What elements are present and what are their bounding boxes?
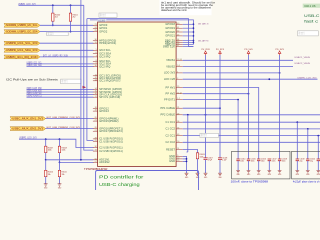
svg-text:2k2: 2k2 [55,17,58,19]
net label USBPD_FLASH_MISO [27,87,42,90]
note box B2 [47,32,68,36]
wire rail PU_1 [205,55,207,158]
junction PP1 rail [219,107,221,109]
svg-text:I2C2 IRQ: I2C2 IRQ [99,65,110,68]
power flag PU_I2C9 [216,49,224,55]
svg-text:GPIO13: GPIO13 [99,110,109,113]
svg-text:100n: 100n [240,161,244,163]
wire VBUS1 [183,59,293,61]
svg-text:U1300: U1300 [98,20,105,22]
wire LDO 1V8 rail [183,78,318,80]
note box B1 [99,13,117,17]
sheet label highlight [303,4,320,8]
svg-text:23: 23 [95,24,97,26]
junction dbg wire [193,23,195,25]
text comment block [161,1,215,12]
svg-text:30: 30 [95,39,97,41]
svg-text:19: 19 [95,110,97,112]
wire sense join [187,151,188,153]
power flag PD_5V0 [244,49,252,55]
svg-text:13,14: 13,14 [177,59,182,61]
svg-text:10: 10 [95,65,97,67]
svg-text:C2 CC1: C2 CC1 [166,134,176,137]
wire box1 cap 0 to gnd [237,161,239,171]
U1300 left pins [93,24,123,164]
capacitor C1014 [236,159,245,163]
wire USBPD_FLASH_CS [27,96,94,98]
wire C1 CC1 [183,121,320,123]
ground divider 2 [58,184,62,190]
wire I2C SDA to pin GPIO1 [40,31,93,33]
junction gnd 2 [186,158,188,160]
sheet name USB-C [304,13,319,18]
svg-text:C2 CC2: C2 CC2 [166,141,176,144]
note 22uF [293,180,320,183]
junction dbg wire [193,42,195,44]
net label DBG_UART_TX [198,23,209,26]
ground cap box2 2 [316,171,320,177]
svg-text:GPIO15(PWM2): GPIO15(PWM2) [99,120,118,123]
ground cap box1 1 [247,171,251,177]
capacitor C1015 [247,159,256,163]
sheet outline PD controller [96,171,199,195]
resistor R1009 [196,153,204,159]
svg-text:C2 USB P(GPIO11): C2 USB P(GPIO11) [99,146,123,149]
capacitor C1020 [306,159,315,163]
svg-text:C40.1 US: C40.1 US [304,4,316,8]
wire PWREN2 [46,128,94,130]
wire top route B [90,20,193,45]
wire PP EXT1 to cap [183,99,238,101]
wire R1010 stem [45,160,47,171]
svg-text:PD_3V3: PD_3V3 [276,49,284,51]
svg-text:100n: 100n [251,161,255,163]
svg-text:7: 7 [96,56,97,58]
svg-text:33: 33 [95,150,97,152]
note box B3 [61,79,81,84]
group box bulk caps [292,151,320,179]
svg-text:41: 41 [177,27,179,29]
svg-text:2: 2 [177,78,178,80]
svg-text:100k: 100k [62,150,66,152]
svg-text:PP2 CABLE: PP2 CABLE [160,114,175,117]
U1300 right pins [160,23,182,163]
net label EXT1_LVL_USBPD_IRQ_3V3N [43,55,68,57]
svg-text:SWD CLK: SWD CLK [163,45,175,48]
wire C2 CC2 [183,141,320,143]
capacitor C1008 [218,158,227,162]
svg-text:21: 21 [177,107,179,109]
sheet title PD controller [99,174,144,179]
ground R1009 [196,173,200,179]
note box B5 [200,133,219,137]
wire PP2 sense down [187,115,189,152]
svg-text:50: 50 [177,141,179,143]
svg-text:32: 32 [95,146,97,148]
wire R1007 stem [45,139,47,146]
junction LDO3V3 cap [279,72,281,74]
capacitor C1007 [204,158,213,162]
svg-text:19: 19 [177,160,179,162]
svg-text:40: 40 [177,23,179,25]
junction CC2 cap [307,128,309,130]
junction R1001 top [70,4,72,6]
junction dbg wire [193,27,195,29]
wire C1008 to gnd [219,160,221,174]
svg-text:GPIO19: GPIO19 [165,27,175,30]
wire PP HV2 to 5V rail [183,93,249,95]
wire gnd pin 3 [183,160,187,162]
wire R1001 upper stem [70,5,72,13]
svg-text:25: 25 [95,30,97,32]
global label USBC_MUX_EN1_3V3 [10,116,46,120]
wire to pin I2C2 SCL [27,63,94,65]
svg-text:2k2: 2k2 [73,17,76,19]
svg-text:C2 USB N(GPIO11): C2 USB N(GPIO11) [99,150,123,153]
ground cap box1 4 [278,171,282,177]
junction cap C1014 [237,99,239,101]
svg-text:VBUS1: VBUS1 [166,59,175,62]
svg-text:4.7µF: 4.7µF [208,160,212,162]
net label USBPD_FLASH_MOSI [27,89,42,92]
svg-text:24: 24 [95,27,97,29]
wire down to cap C1014 [237,100,239,159]
junction dbg wire [193,35,195,37]
svg-text:48: 48 [177,113,179,115]
svg-text:GPIO20: GPIO20 [165,31,175,34]
svg-text:100n: 100n [261,161,265,163]
svg-text:21: 21 [95,120,97,122]
wire to pin I2C2 SDA [27,66,94,68]
wire C2 CC1 [183,135,320,137]
svg-text:47: 47 [177,45,179,47]
svg-text:USBPD_I2C1_IRQ_3V3N: USBPD_I2C1_IRQ_3V3N [6,55,38,59]
wire PWREN1 [46,118,94,120]
svg-text:LDO 3V3: LDO 3V3 [164,72,175,75]
svg-text:49: 49 [177,134,179,136]
wire dbg pin [183,46,194,48]
junction CC3 cap [317,135,319,137]
svg-text:4x22µF, place close to ch: 4x22µF, place close to ch [293,180,320,183]
net label USBC2_VBUS [295,63,311,65]
junction R1000 top [52,4,54,6]
ground C1008 [218,173,222,179]
wire rail 3V3_PD [279,55,281,159]
svg-text:PU_I2C8: PU_I2C8 [201,49,209,51]
resistor R1011 [58,170,66,176]
wire USBPD_FLASH_MOSI [27,91,94,93]
group box decoupling 100nF [232,151,290,179]
svg-text:USBC1_VBUS: USBC1_VBUS [295,57,311,59]
wire top route A [87,19,193,47]
svg-text:SPI CS (GPIO19): SPI CS (GPIO19) [99,96,120,99]
wire PP2 CABLE [183,114,320,116]
capacitor C1021 [317,159,320,163]
svg-text:RESET: RESET [166,148,175,151]
wire rail PU_2 [219,55,221,158]
ground cap box1 0 [236,171,240,177]
capacitor C1017 [268,159,277,163]
svg-text:datasheet and the norm: datasheet and the norm [161,9,187,12]
net label USBPD_LDO_3V3 (top) [18,4,36,6]
wire R1011 stem [59,162,61,170]
net label USBPD_I2C1_SCL [27,62,43,64]
svg-text:36: 36 [177,121,179,123]
svg-text:57: 57 [95,161,97,163]
svg-text:31: 31 [95,42,97,44]
svg-text:33k: 33k [62,174,65,176]
svg-text:USB-C: USB-C [304,13,319,18]
sheet title USB-C charging [99,182,140,187]
wire box2 cap 0 to gnd [296,161,298,171]
junction PP HV2 [248,93,250,95]
svg-text:C1 CC1: C1 CC1 [166,121,176,124]
svg-text:GND: GND [317,174,320,176]
wire dbg pin [183,27,194,29]
svg-text:GPIO21: GPIO21 [165,35,175,38]
svg-text:100k: 100k [200,156,204,158]
note box B4 [298,31,319,36]
svg-text:1,2: 1,2 [177,98,180,100]
svg-text:27: 27 [95,130,97,132]
wire bus vertical 3 to C1 USB N [87,19,94,141]
capacitor C1019 [296,159,305,163]
net label USBPD_FLASH_CS [27,95,43,98]
capacitor C1018 [278,159,287,163]
svg-text:11,12: 11,12 [177,92,181,94]
svg-text:USB-C charging: USB-C charging [99,182,140,187]
wire box1 cap 1 to gnd [248,161,250,171]
wire gnd bundle [183,156,187,173]
ground cap box1 3 [267,171,271,177]
svg-text:USBC_MUX_EN2_3V3: USBC_MUX_EN2_3V3 [12,127,44,131]
svg-text:DBG_UART_TX: DBG_UART_TX [198,23,209,26]
svg-text:33k: 33k [48,174,51,176]
note 100nF [231,180,269,183]
svg-text:PP1 CABLE: PP1 CABLE [160,107,175,110]
svg-text:22µ: 22µ [300,161,303,163]
svg-text:USBC2_VBUS: USBC2_VBUS [295,63,311,65]
wire dbg pin [183,35,194,37]
wire down to cap C1019 [296,122,298,159]
net label USBPD_I2C1_SDA [27,64,43,67]
resistor R1001 [69,13,77,21]
global label USBPD_I2C1_SCL_3V3 [4,41,40,45]
net label USBPD_LDO_3V3 (bottom) [19,138,37,140]
global label USBC_MUX_EN2_3V3 [10,127,46,131]
wire dbg pin [183,44,194,46]
wire R1009 to gnd [197,159,199,173]
wire down to cap C1021 [317,136,319,159]
svg-text:4.7µF: 4.7µF [222,160,226,162]
wire to pin HPD2 [40,42,93,44]
resistor R1000 [52,13,60,21]
svg-text:43: 43 [177,35,179,37]
wire bus vertical 1 [80,0,82,160]
junction PP2 rail [205,114,207,116]
svg-text:SODIMM_USBPD_I2C_SDA: SODIMM_USBPD_I2C_SDA [6,30,38,34]
junction LDO1V8 cap [268,78,270,80]
svg-text:HPD2(GPIO4): HPD2(GPIO4) [99,42,116,45]
wire R1010 to gnd [45,177,47,184]
net label USBPD_FLASH_SCK [27,92,43,95]
net label EXT_USB_PWREN1_CON_3V3 [47,117,81,119]
wire to pin I2C3 SCL [40,49,93,51]
wire I2C SCL to pin GPIO0 [40,24,93,26]
wire C1007 to gnd [205,160,207,174]
junction divider 2 [59,162,61,164]
wire USBPD_FLASH_MISO [27,88,94,90]
wire to pin I2C3 IRQ [40,56,93,58]
svg-text:PP HV2: PP HV2 [166,93,176,96]
svg-text:51: 51 [177,148,179,150]
junction PP2 sense [187,114,189,116]
wire LDO to C2 USB P pin [19,139,93,147]
wire box1 cap 2 to gnd [258,161,260,171]
power flag PU_I2C8 [201,49,209,55]
wire R1007 to junction [45,153,47,160]
junction gnd 3 [186,161,188,163]
junction bus1 ADC [80,159,82,161]
net label USBC1_VBUS [295,57,311,59]
wire box1 cap 3 to gnd [268,161,270,171]
svg-text:fast c: fast c [304,19,318,24]
svg-text:GPIO2: GPIO2 [99,30,108,33]
wire PP1 CABLE [183,107,220,109]
wire box2 cap 1 to gnd [307,161,309,171]
junction R1000 bottom [52,24,54,26]
svg-text:17: 17 [95,96,97,98]
junction R1007 top [45,138,47,140]
resistor R1010 [45,170,53,176]
resistor R1008 [58,146,66,152]
ground U1300 [185,173,189,179]
wire rail 5V_PD [248,55,250,159]
svg-text:100k: 100k [48,150,52,152]
global label USBPD_I2C1_SDA_3V3 [4,48,40,52]
svg-text:PD contrller for: PD contrller for [99,174,144,179]
junction R1001 bottom [70,31,72,33]
junction R1008 top [59,138,61,140]
svg-text:C1 CC2: C1 CC2 [166,128,176,131]
net label USBPD_LDO_3V3 (right) [297,78,317,80]
wire C1 CC2 [183,128,320,130]
svg-text:15: 15 [177,86,179,88]
ground cap box1 2 [257,171,261,177]
global label SODIMM_USBPD_I2C_SCL [4,23,40,27]
wire box1 cap 4 to gnd [279,161,281,171]
wire R1011 to gnd [59,177,61,184]
wire down to cap C1020 [307,129,309,159]
svg-text:SODIMM_USBPD_I2C_SCL: SODIMM_USBPD_I2C_SCL [6,23,38,27]
wire dbg pin [183,40,194,42]
svg-text:C1 USB N(GPIO10): C1 USB N(GPIO10) [99,140,123,143]
svg-text:LDO 1V8: LDO 1V8 [164,78,175,81]
svg-text:5: 5 [96,49,97,51]
svg-text:USBPD_LDO_3V3: USBPD_LDO_3V3 [297,78,317,80]
svg-text:1: 1 [177,72,178,74]
junction dbg wire [193,40,195,42]
svg-text:3,4: 3,4 [177,65,180,67]
svg-text:USBPD_I2C1_SCL_3V3: USBPD_I2C1_SCL_3V3 [6,41,38,45]
svg-text:22µ: 22µ [310,161,313,163]
wire dbg pin [183,31,194,33]
junction divider 1 [45,159,47,161]
wire bus vertical 2 to C2 USB N [84,5,94,150]
svg-text:100n: 100n [272,161,276,163]
wire USBPD_FLASH_SCK [27,94,94,96]
svg-text:USBC_MUX_EN1_3V3: USBC_MUX_EN1_3V3 [12,116,44,120]
wire VBUS2 [183,66,293,68]
ground cap box2 1 [306,171,310,177]
svg-text:GND: GND [169,160,175,163]
svg-text:I2C Pull-Ups are on Sub Sheets: I2C Pull-Ups are on Sub Sheets [6,77,58,81]
IC U1300 body [98,22,177,167]
comment block background [160,0,212,15]
svg-text:PP HV1: PP HV1 [166,86,176,89]
svg-text:I2C3 IRQ: I2C3 IRQ [99,56,110,59]
svg-text:29: 29 [95,140,97,142]
ground C1007 [204,173,208,179]
wire R1008 stem [59,139,61,146]
svg-text:GPIO18: GPIO18 [165,23,175,26]
wire R1008 to junction [59,153,61,163]
junction dbg wire [193,31,195,33]
wire ADC2 sense [60,161,94,163]
svg-text:PD_5V0: PD_5V0 [244,49,252,51]
svg-text:USBPD_I2C1_SDA_3V3: USBPD_I2C1_SDA_3V3 [6,48,38,52]
svg-text:6: 6 [96,52,97,54]
wire dbg pin [183,42,194,44]
wire reset to R1009 [183,150,198,153]
wire LDO rail top [19,4,84,6]
svg-text:PP EXT1: PP EXT1 [164,98,175,101]
U1300 value TPS65988DHRSR [84,167,108,171]
wire box2 cap 2 to gnd [317,161,319,171]
net label DBG_UART_RX [198,39,209,42]
wire LDO 3V3 rail [183,72,280,74]
capacitor C1016 [257,159,266,163]
wire R1000 lower stem [52,21,54,25]
svg-text:DBG_UART_RX: DBG_UART_RX [198,39,209,42]
global label USBPD_I2C1_IRQ_3V3N [4,55,40,59]
sheet name fast [304,19,318,24]
junction CC1 cap [296,121,298,123]
ERC marker arrow [83,86,86,89]
text note I2C pull-ups [6,77,58,81]
U1300 refdes [98,19,107,22]
wire R1000 upper stem [52,5,54,13]
svg-text:100n: 100n [282,161,286,163]
power flag PD_3V3 [276,49,284,55]
wire gnd pin 2 [183,158,187,160]
svg-text:VBUS2: VBUS2 [166,65,175,68]
ground cap box2 0 [295,171,299,177]
wire ADC1 sense [46,159,94,161]
svg-text:100nF, close to TPS65988: 100nF, close to TPS65988 [231,180,269,183]
svg-text:I2C1 IRQ(GPIO7): I2C1 IRQ(GPIO7) [99,80,120,83]
ground divider 1 [44,184,48,190]
svg-text:13: 13 [95,79,97,81]
resistor R1007 [45,146,53,152]
svg-text:PU_I2C9: PU_I2C9 [216,49,224,51]
global label SODIMM_USBPD_I2C_SDA [4,30,40,34]
svg-text:42: 42 [177,31,179,33]
svg-text:GPIO17(PROFET2): GPIO17(PROFET2) [99,130,123,133]
wire PP HV1 to cap C1016 [183,88,259,160]
svg-text:ADC2N2: ADC2N2 [99,161,110,164]
wire R1001 lower stem [70,21,72,31]
